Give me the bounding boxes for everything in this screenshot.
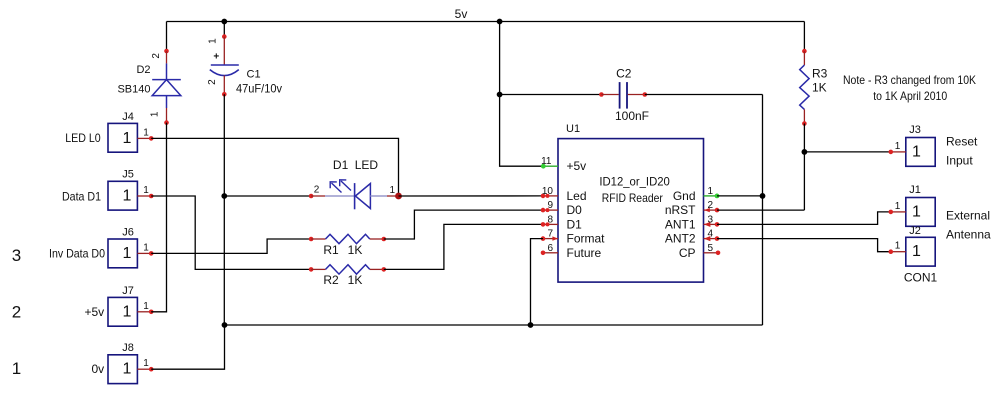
svg-text:LED: LED — [355, 158, 379, 172]
svg-text:J5: J5 — [122, 169, 134, 181]
op-amp U1 box — [558, 123, 704, 282]
svg-text:1: 1 — [912, 203, 921, 220]
U1 pin 7 Format — [541, 229, 558, 241]
svg-text:SB140: SB140 — [117, 84, 150, 96]
svg-text:J3: J3 — [909, 124, 921, 136]
svg-text:1K: 1K — [812, 81, 827, 95]
U1 pin 4 ANT2 — [704, 229, 720, 242]
svg-text:2: 2 — [151, 53, 162, 59]
svg-text:C1: C1 — [247, 69, 261, 81]
wire C2 right to gnd riser — [645, 94, 763, 96]
svg-text:0v: 0v — [92, 362, 105, 376]
node junction 0v rail / format riser — [528, 322, 534, 328]
node junction 5v drop / C2 — [497, 92, 503, 98]
connector J8 — [92, 342, 154, 383]
svg-text:+5v: +5v — [85, 305, 105, 319]
wire U1 Gnd to riser — [717, 195, 763, 197]
svg-text:CON1: CON1 — [904, 271, 938, 285]
svg-text:Data D1: Data D1 — [62, 189, 101, 203]
svg-text:J4: J4 — [122, 111, 134, 123]
svg-text:1: 1 — [708, 186, 714, 197]
svg-text:Led: Led — [567, 189, 587, 203]
U1 pin 5 CP — [704, 243, 721, 255]
svg-text:nRST: nRST — [665, 203, 696, 217]
svg-text:R1: R1 — [323, 243, 339, 257]
wire 5v top rail — [167, 21, 805, 23]
svg-text:CP: CP — [679, 246, 696, 260]
svg-text:Antenna: Antenna — [946, 228, 991, 242]
svg-text:J8: J8 — [122, 342, 134, 354]
connector J6 — [49, 226, 154, 267]
node junction LED anode — [395, 193, 402, 200]
svg-text:LED L0: LED L0 — [65, 131, 101, 145]
svg-text:D1: D1 — [567, 217, 583, 231]
svg-text:3: 3 — [12, 246, 21, 265]
svg-text:7: 7 — [547, 229, 553, 240]
U1 pin 9 D0 — [541, 200, 558, 212]
svg-text:J6: J6 — [122, 226, 134, 238]
wire ANT2 to J2 — [717, 239, 891, 252]
wire 5v drop to U1 pin11 — [500, 22, 544, 167]
capacitor C2 — [599, 67, 649, 123]
connector J3 — [889, 124, 979, 168]
svg-text:ANT1: ANT1 — [665, 217, 696, 231]
connector J2 — [889, 225, 938, 285]
wire junction down to nRST — [803, 152, 805, 210]
wire LED cathode feed — [224, 195, 311, 197]
wire C1 down to 0v rail — [223, 94, 225, 325]
wire U1 pin7 to 0v rail — [531, 239, 544, 325]
svg-text:1K: 1K — [348, 243, 363, 257]
svg-text:+: + — [213, 52, 219, 63]
svg-text:1: 1 — [390, 185, 396, 196]
svg-text:2: 2 — [12, 303, 21, 322]
node junction C1 / LED cathode — [221, 193, 227, 199]
svg-text:2: 2 — [314, 184, 320, 195]
svg-text:to 1K April 2010: to 1K April 2010 — [873, 89, 947, 103]
node junction R3 / J3 / nRST — [802, 149, 808, 155]
connector J5 — [62, 169, 154, 210]
wire junction to J3 — [804, 151, 890, 153]
resistor R2 — [309, 265, 386, 288]
svg-text:D2: D2 — [136, 64, 150, 76]
wire LED anode to U1 pin10 — [399, 195, 544, 197]
wire J6 Inv Data D0 to R1 — [151, 239, 311, 253]
svg-text:47uF/10v: 47uF/10v — [236, 82, 282, 96]
svg-text:1: 1 — [143, 242, 149, 253]
svg-text:11: 11 — [541, 156, 552, 167]
svg-text:J7: J7 — [122, 285, 134, 297]
svg-text:5: 5 — [708, 243, 714, 254]
svg-text:Note - R3 changed from 10K: Note - R3 changed from 10K — [843, 73, 976, 87]
svg-text:4: 4 — [708, 229, 714, 240]
svg-text:9: 9 — [547, 200, 553, 211]
wire top rail to R3 — [803, 22, 805, 52]
svg-text:RFID Reader: RFID Reader — [602, 191, 663, 205]
svg-text:C2: C2 — [616, 67, 632, 81]
svg-text:+5v: +5v — [567, 159, 587, 173]
svg-text:1: 1 — [207, 38, 218, 44]
wire R1 to U1 pin9 — [384, 210, 543, 239]
wire J4 LED L0 to LED anode — [151, 138, 398, 196]
wire R3 to J3 junction — [803, 124, 805, 152]
svg-text:1: 1 — [143, 185, 149, 196]
svg-text:2: 2 — [708, 200, 714, 211]
svg-text:1: 1 — [895, 241, 901, 252]
svg-text:1: 1 — [895, 201, 901, 212]
wire ANT1 to J1 — [717, 212, 891, 225]
wire 0v rail — [225, 324, 763, 326]
connector J7 — [85, 285, 154, 326]
svg-text:5v: 5v — [455, 7, 468, 21]
svg-text:8: 8 — [547, 214, 553, 225]
wire J7 +5v riser to D2 — [151, 123, 166, 312]
svg-text:Input: Input — [946, 154, 973, 168]
svg-text:1K: 1K — [348, 273, 363, 287]
capacitor C1 — [207, 22, 282, 97]
wire gnd riser — [762, 95, 764, 326]
svg-text:1: 1 — [912, 143, 921, 160]
connector J1 — [889, 184, 992, 242]
svg-text:1: 1 — [143, 127, 149, 138]
svg-text:3: 3 — [708, 214, 714, 225]
svg-text:Format: Format — [567, 232, 606, 246]
svg-text:10: 10 — [542, 186, 554, 197]
svg-text:J2: J2 — [909, 225, 921, 237]
svg-text:D1: D1 — [333, 158, 349, 172]
svg-text:1: 1 — [123, 245, 132, 262]
svg-text:Future: Future — [567, 246, 602, 260]
U1 pin 3 ANT1 — [704, 214, 720, 227]
svg-text:1: 1 — [12, 359, 21, 378]
svg-text:1: 1 — [143, 301, 149, 312]
resistor R1 — [309, 234, 386, 256]
svg-text:1: 1 — [123, 361, 132, 378]
svg-text:ID12_or_ID20: ID12_or_ID20 — [599, 174, 670, 188]
node junction top rail / C1 — [221, 19, 227, 25]
resistor R3 — [800, 49, 828, 126]
U1 pin 6 Future — [541, 243, 558, 255]
svg-text:Gnd: Gnd — [673, 189, 696, 203]
wire J8 0v riser to rail — [151, 325, 224, 369]
svg-text:D0: D0 — [567, 203, 583, 217]
svg-text:1: 1 — [123, 303, 132, 320]
svg-text:1: 1 — [123, 188, 132, 205]
node junction 0v rail left — [222, 322, 228, 328]
wire C2 left — [500, 94, 602, 96]
U1 pin 1 Gnd — [704, 186, 720, 198]
wire R2 to U1 pin8 — [384, 224, 543, 269]
wire J5 Data D1 to R2 — [151, 196, 311, 269]
svg-text:100nF: 100nF — [615, 109, 649, 123]
svg-text:1: 1 — [150, 111, 161, 117]
svg-text:ANT2: ANT2 — [665, 232, 696, 246]
connector J4 — [65, 111, 153, 152]
svg-text:R2: R2 — [323, 273, 339, 287]
U1 pin 8 D1 — [541, 214, 558, 226]
svg-text:R3: R3 — [812, 67, 828, 81]
svg-text:1: 1 — [143, 358, 149, 369]
U1 pin 11 +5v — [541, 156, 558, 168]
wire D2 top lead — [166, 22, 168, 52]
U1 pin 10 Led — [541, 186, 558, 198]
svg-text:6: 6 — [547, 243, 553, 254]
svg-text:1: 1 — [123, 130, 132, 147]
svg-text:1: 1 — [895, 141, 901, 152]
LED D1 — [309, 158, 399, 209]
svg-text:Reset: Reset — [946, 135, 978, 149]
U1 pin 2 nRST — [704, 200, 720, 212]
svg-text:2: 2 — [207, 79, 218, 85]
diode D2 — [117, 49, 180, 125]
svg-text:External: External — [946, 209, 990, 223]
wire nRST run — [717, 209, 804, 211]
svg-text:J1: J1 — [909, 184, 921, 196]
svg-text:U1: U1 — [566, 123, 580, 135]
node junction top rail / +5v drop — [497, 19, 503, 25]
svg-text:1: 1 — [912, 243, 921, 260]
svg-text:Inv Data D0: Inv Data D0 — [49, 247, 105, 261]
node junction gnd riser / U1 Gnd — [760, 193, 766, 199]
